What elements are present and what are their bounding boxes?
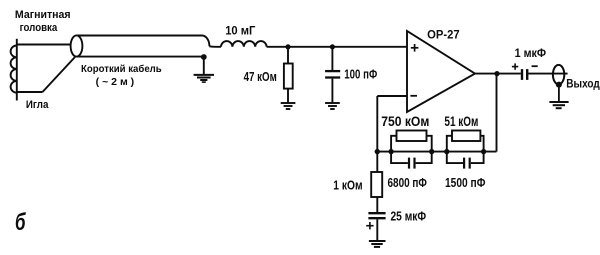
capacitor C3 1500 пФ bbox=[447, 152, 484, 169]
ground C4 bbox=[369, 241, 386, 247]
wire cable to inductor bbox=[209, 45, 221, 48]
wire head top bbox=[17, 44, 74, 46]
junction RC2 right bbox=[481, 149, 486, 154]
svg-text:головка: головка bbox=[20, 22, 59, 34]
magnetic head coil L1 bbox=[11, 39, 17, 101]
output terminal circle bbox=[553, 65, 564, 84]
junction output node bbox=[494, 71, 499, 76]
svg-text:750 кОм: 750 кОм bbox=[381, 114, 429, 129]
wire inverting input bbox=[377, 95, 407, 97]
wire feedback bottom bbox=[377, 151, 496, 153]
junction RC1 right bbox=[429, 149, 434, 154]
op-amp + pin marker bbox=[411, 44, 419, 52]
wire inverting to feedback bbox=[376, 96, 378, 152]
svg-text:( ~ 2 м ): ( ~ 2 м ) bbox=[96, 77, 135, 88]
ground R1 bbox=[281, 103, 296, 109]
polarity + of C4 bbox=[366, 222, 373, 229]
svg-text:Магнитная: Магнитная bbox=[15, 9, 71, 21]
svg-text:10 мГ: 10 мГ bbox=[225, 23, 255, 37]
svg-text:47 кОм: 47 кОм bbox=[244, 70, 277, 84]
wire R1 to ground bbox=[287, 89, 289, 103]
polarity + of C5 bbox=[512, 63, 518, 69]
junction node B bbox=[330, 44, 335, 49]
resistor R2 750 кОм bbox=[391, 131, 432, 152]
svg-text:6800 пФ: 6800 пФ bbox=[388, 175, 427, 190]
label "Короткий кабель (~2 м)" bbox=[81, 63, 162, 88]
capacitor C2 6800 пФ bbox=[391, 152, 432, 169]
polarity − of C5 bbox=[532, 65, 538, 67]
junction node A bbox=[285, 44, 290, 49]
junction feedback left bbox=[375, 149, 380, 154]
svg-text:Выход: Выход bbox=[566, 77, 600, 91]
resistor R4 1 кОм bbox=[371, 172, 382, 197]
op-amp U1 OP-27 bbox=[407, 31, 475, 112]
svg-text:1 кОм: 1 кОм bbox=[333, 179, 362, 193]
svg-text:б: б bbox=[15, 209, 26, 236]
wire node B to C1 bbox=[331, 47, 333, 70]
svg-text:100 пФ: 100 пФ bbox=[344, 67, 377, 82]
inductor L2 10 мГ bbox=[221, 41, 267, 47]
junction RC1 left bbox=[388, 149, 393, 154]
op-amp − pin marker bbox=[410, 95, 417, 97]
resistor R3 51 кОм bbox=[447, 131, 484, 152]
wire C4 to ground bbox=[376, 219, 378, 240]
wire main horizontal bbox=[267, 46, 407, 48]
svg-text:Короткий кабель: Короткий кабель bbox=[81, 63, 162, 75]
wire shield diagonal bbox=[43, 57, 76, 92]
wire node A to R1 bbox=[287, 47, 289, 64]
wire op-amp output bbox=[475, 73, 521, 75]
wire C5 to output bbox=[528, 73, 567, 75]
svg-text:1 мкФ: 1 мкФ bbox=[515, 46, 547, 60]
capacitor C1 100 пФ bbox=[325, 71, 340, 77]
wire to R4 bbox=[376, 152, 378, 172]
svg-text:51 кОм: 51 кОм bbox=[444, 114, 478, 129]
svg-text:Игла: Игла bbox=[26, 99, 49, 111]
resistor R1 47 кОм bbox=[284, 64, 293, 89]
ground C1 bbox=[325, 103, 340, 109]
capacitor C5 1 мкФ bbox=[522, 69, 527, 80]
ground cable shield bbox=[194, 57, 214, 82]
label "Магнитная головка" bbox=[15, 9, 71, 34]
wire feedback vertical bbox=[496, 74, 498, 152]
svg-text:25 мкФ: 25 мкФ bbox=[391, 208, 427, 223]
junction RC2 left bbox=[444, 149, 449, 154]
svg-text:OP-27: OP-27 bbox=[427, 27, 460, 41]
wire R4 to C4 bbox=[376, 197, 378, 212]
junction output terminal bottom bbox=[556, 82, 562, 88]
ground output bbox=[549, 85, 568, 109]
junction cable shield bbox=[201, 54, 207, 60]
coax cable body bbox=[71, 35, 210, 56]
wire head bottom bbox=[17, 91, 43, 93]
wire C1 to ground bbox=[331, 79, 333, 103]
svg-text:1500 пФ: 1500 пФ bbox=[445, 175, 485, 190]
capacitor C4 25 мкФ bbox=[368, 213, 385, 218]
